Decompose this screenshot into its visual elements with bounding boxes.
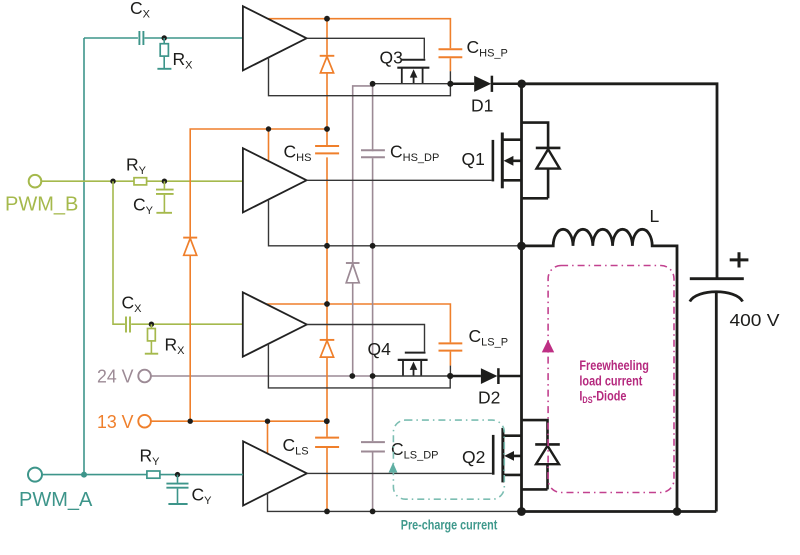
svg-text:Freewheeling: Freewheeling xyxy=(579,358,649,373)
wire amp1 output to Q3 gate xyxy=(307,38,425,59)
node mauve bus switch return xyxy=(370,243,376,249)
node 13V rail top junction xyxy=(324,16,330,22)
wire supply drop to amp4 xyxy=(267,421,269,454)
svg-text:D2: D2 xyxy=(478,388,500,408)
svg-text:load current: load current xyxy=(579,373,642,388)
capacitor C_Y (top, olive) xyxy=(156,181,174,213)
wire amp1 return box xyxy=(269,57,451,95)
wire mauve bus vertical x372.6 xyxy=(372,84,374,512)
node C_LS_P junction xyxy=(447,373,453,379)
inductor L xyxy=(522,229,678,511)
op-amp U2 driver triangle xyxy=(243,148,307,212)
capacitor C_HS_P xyxy=(439,49,463,84)
diode Q1 body xyxy=(522,123,561,199)
diode mauve xyxy=(346,263,360,283)
node switch node xyxy=(517,242,526,251)
diode orange on 13V riser xyxy=(183,238,197,256)
diode D1 xyxy=(450,76,521,92)
op-amp U3 driver triangle xyxy=(243,292,307,356)
transistor Q3 xyxy=(397,59,429,84)
capacitor C_HS xyxy=(315,146,339,153)
svg-text:PWM_A: PWM_A xyxy=(19,489,93,511)
wire supply drop to amp2 xyxy=(268,129,270,161)
node mauve bus bottom rail xyxy=(370,509,376,515)
svg-text:L: L xyxy=(650,206,660,226)
wire amp2 output to Q1 gate xyxy=(307,179,492,181)
resistor R_Y (lower, teal) xyxy=(147,471,160,478)
wire orange rail amp1 top xyxy=(268,19,450,49)
wire teal top row to C_X xyxy=(84,37,243,39)
node junction C_Y lower xyxy=(175,472,180,477)
terminal 13V xyxy=(138,415,151,428)
node PWM_B branch xyxy=(110,179,115,184)
wire orange bus vertical x327 xyxy=(326,19,328,512)
svg-text:Q2: Q2 xyxy=(462,447,485,467)
wire PWM_A teal main vertical xyxy=(83,38,85,475)
capacitor C_HS_DP xyxy=(361,150,385,157)
op-amp U1 driver triangle xyxy=(243,6,307,70)
node bottom rail Q2 xyxy=(517,507,526,516)
transistor Q1 xyxy=(493,133,522,189)
wire PWM_B row xyxy=(41,180,243,182)
wire amp2 return to switch node xyxy=(269,200,522,246)
wire orange rail amp3 xyxy=(267,304,451,342)
node Q3 lead mauve junction xyxy=(370,81,376,87)
wire Q4 source lead xyxy=(373,375,451,377)
wire top rail thick xyxy=(522,84,717,278)
wire amp4 return to bottom rail xyxy=(268,493,522,512)
arrow pre-charge direction xyxy=(389,463,398,473)
wire amp4 output to Q2 gate xyxy=(307,472,492,474)
wire amp3 return box xyxy=(268,344,450,388)
capacitor C_X (top, teal) xyxy=(139,31,143,45)
node 24V rail diode branch xyxy=(349,373,355,379)
wire mauve branch x352.7 with elbow xyxy=(353,86,373,376)
wire freewheeling loop magenta xyxy=(548,266,674,493)
terminal PWM_B xyxy=(29,175,42,188)
diode Q2 body xyxy=(522,420,560,489)
diode orange lower on bus xyxy=(320,340,335,357)
wire 13V riser left xyxy=(190,129,327,421)
resistor R_X (top, teal) xyxy=(157,38,171,69)
transistor Q4 xyxy=(398,352,428,376)
node junction C_Y top xyxy=(162,179,167,184)
node supply drop amp2 xyxy=(266,126,271,131)
op-amp U4 driver triangle xyxy=(243,441,307,505)
node junction C_X / R_X xyxy=(162,35,167,40)
arrow freewheeling direction xyxy=(542,340,554,353)
wire bottom rail thick xyxy=(522,510,717,513)
svg-text:Q1: Q1 xyxy=(462,149,485,169)
capacitor C_LS_DP xyxy=(361,442,385,451)
wire pre-charge loop teal xyxy=(393,420,504,499)
node orange bus amp3 rail xyxy=(324,301,330,307)
terminal 24V xyxy=(138,370,151,383)
wire 24V rail xyxy=(151,375,373,377)
svg-text:Pre-charge current: Pre-charge current xyxy=(401,517,498,532)
node orange bus switch return xyxy=(324,243,330,249)
node supply drop amp4 xyxy=(265,419,270,424)
node bottom rail L xyxy=(673,507,682,516)
capacitor 400V bulk xyxy=(690,279,744,512)
node orange bus 13V feed xyxy=(324,126,330,132)
capacitor C_X (lower, olive) xyxy=(126,317,130,333)
node top rail junction xyxy=(517,80,526,89)
node 13V rail riser xyxy=(188,419,193,424)
wire Q3 source lead xyxy=(373,83,451,85)
capacitor C_LS xyxy=(315,438,339,447)
svg-text:13 V: 13 V xyxy=(97,411,134,432)
svg-text:PWM_B: PWM_B xyxy=(5,194,78,216)
node 24V rail mauve bus xyxy=(370,373,376,379)
node C_HS_P junction xyxy=(447,81,453,87)
svg-text:Q3: Q3 xyxy=(380,48,403,68)
capacitor C_Y (lower, teal) xyxy=(166,475,188,504)
transistor Q2 xyxy=(493,428,521,483)
wire 13V rail xyxy=(151,420,327,422)
terminal PWM_A xyxy=(28,468,42,482)
capacitor C_LS_P xyxy=(439,343,463,376)
wire olive branch down to lower C_X xyxy=(113,181,243,324)
label + polarity xyxy=(730,252,749,267)
diode D2 xyxy=(450,368,521,384)
wire main trunk Q1/Q2 xyxy=(520,84,523,512)
svg-text:Q4: Q4 xyxy=(368,339,392,359)
node junction lower R_X xyxy=(149,322,154,327)
diode orange upper on bus xyxy=(320,56,335,73)
svg-text:400 V: 400 V xyxy=(730,310,780,330)
svg-text:D1: D1 xyxy=(471,96,493,116)
svg-text:24 V: 24 V xyxy=(97,366,134,387)
wire PWM_A row xyxy=(42,474,243,476)
node 13V rail end xyxy=(324,418,330,424)
node orange bus bottom rail xyxy=(324,509,330,515)
resistor R_X (lower, olive) xyxy=(145,324,158,354)
node PWM_A branch xyxy=(81,472,87,478)
resistor R_Y (top, olive) xyxy=(134,178,147,185)
wire amp3 output to Q4 gate xyxy=(307,325,425,352)
